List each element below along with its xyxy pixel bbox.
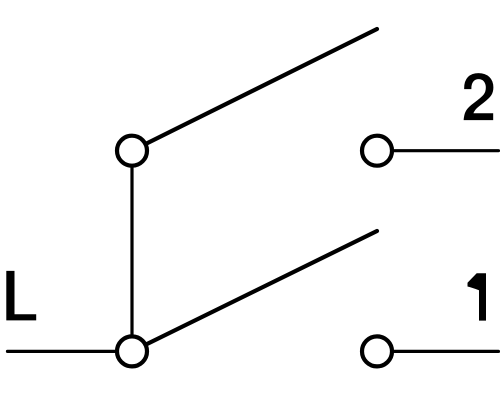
node pivot bottom xyxy=(117,336,147,366)
terminal contact 1 xyxy=(362,336,392,366)
switch lever top xyxy=(132,29,377,151)
wire terminal 2 xyxy=(377,149,499,152)
label L xyxy=(6,271,36,321)
wire vertical link xyxy=(130,151,133,352)
wire L feed xyxy=(8,350,133,353)
wire terminal 1 xyxy=(377,350,499,353)
switch lever bottom xyxy=(132,231,377,351)
terminal contact 2 xyxy=(362,136,392,166)
label 2 xyxy=(463,72,494,121)
label 1 xyxy=(468,273,487,320)
node pivot top xyxy=(117,136,147,166)
